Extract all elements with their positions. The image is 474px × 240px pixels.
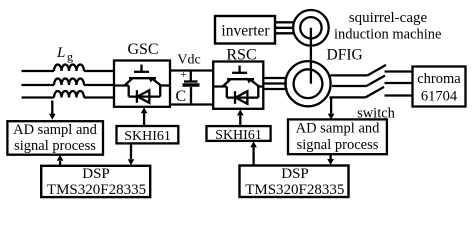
svg-text:Vdc: Vdc bbox=[177, 53, 200, 68]
svg-text:C: C bbox=[176, 88, 187, 105]
svg-text:signal process: signal process bbox=[14, 138, 96, 154]
svg-text:inverter: inverter bbox=[221, 23, 270, 40]
svg-text:L: L bbox=[56, 45, 65, 61]
svg-text:+: + bbox=[180, 69, 186, 81]
svg-text:SKHI61: SKHI61 bbox=[215, 128, 262, 143]
svg-text:switch: switch bbox=[357, 106, 396, 122]
svg-text:GSC: GSC bbox=[127, 41, 158, 58]
svg-text:RSC: RSC bbox=[226, 47, 256, 64]
svg-text:squirrel-cage: squirrel-cage bbox=[349, 10, 428, 26]
svg-text:DSP: DSP bbox=[82, 166, 110, 182]
svg-text:61704: 61704 bbox=[421, 89, 458, 105]
svg-text:AD sampl and: AD sampl and bbox=[296, 121, 381, 137]
svg-text:AD sampl and: AD sampl and bbox=[13, 122, 98, 138]
svg-text:TMS320F28335: TMS320F28335 bbox=[47, 182, 146, 198]
svg-text:signal process: signal process bbox=[297, 137, 379, 153]
svg-text:DFIG: DFIG bbox=[327, 47, 363, 64]
svg-text:chroma: chroma bbox=[417, 71, 461, 87]
svg-text:TMS320F28335: TMS320F28335 bbox=[245, 182, 344, 198]
svg-text:SKHI61: SKHI61 bbox=[124, 129, 171, 144]
svg-text:DSP: DSP bbox=[281, 166, 309, 182]
svg-text:g: g bbox=[67, 50, 73, 64]
svg-text:induction machine: induction machine bbox=[334, 27, 442, 43]
